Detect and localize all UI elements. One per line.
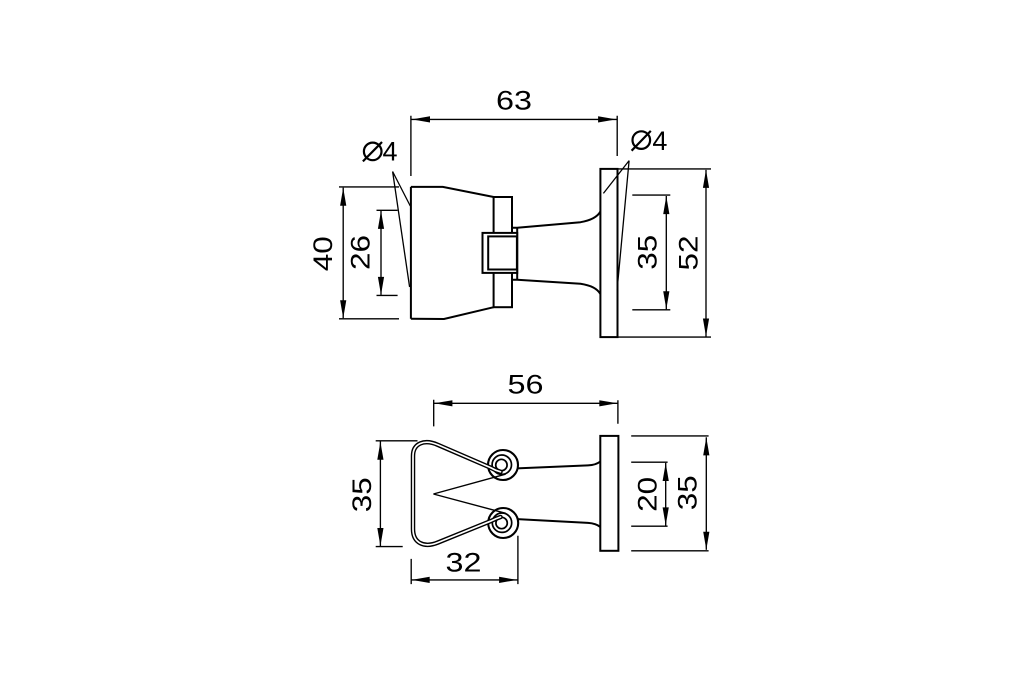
svg-text:4: 4: [382, 137, 397, 167]
svg-text:35: 35: [632, 235, 662, 270]
svg-text:4: 4: [652, 126, 667, 156]
svg-text:32: 32: [446, 548, 482, 578]
svg-text:40: 40: [308, 236, 338, 271]
svg-text:52: 52: [674, 236, 704, 271]
svg-text:63: 63: [496, 85, 532, 115]
svg-text:26: 26: [345, 235, 375, 270]
svg-text:56: 56: [508, 370, 544, 400]
svg-text:20: 20: [633, 477, 663, 512]
svg-text:35: 35: [672, 475, 702, 510]
svg-text:35: 35: [347, 477, 377, 512]
